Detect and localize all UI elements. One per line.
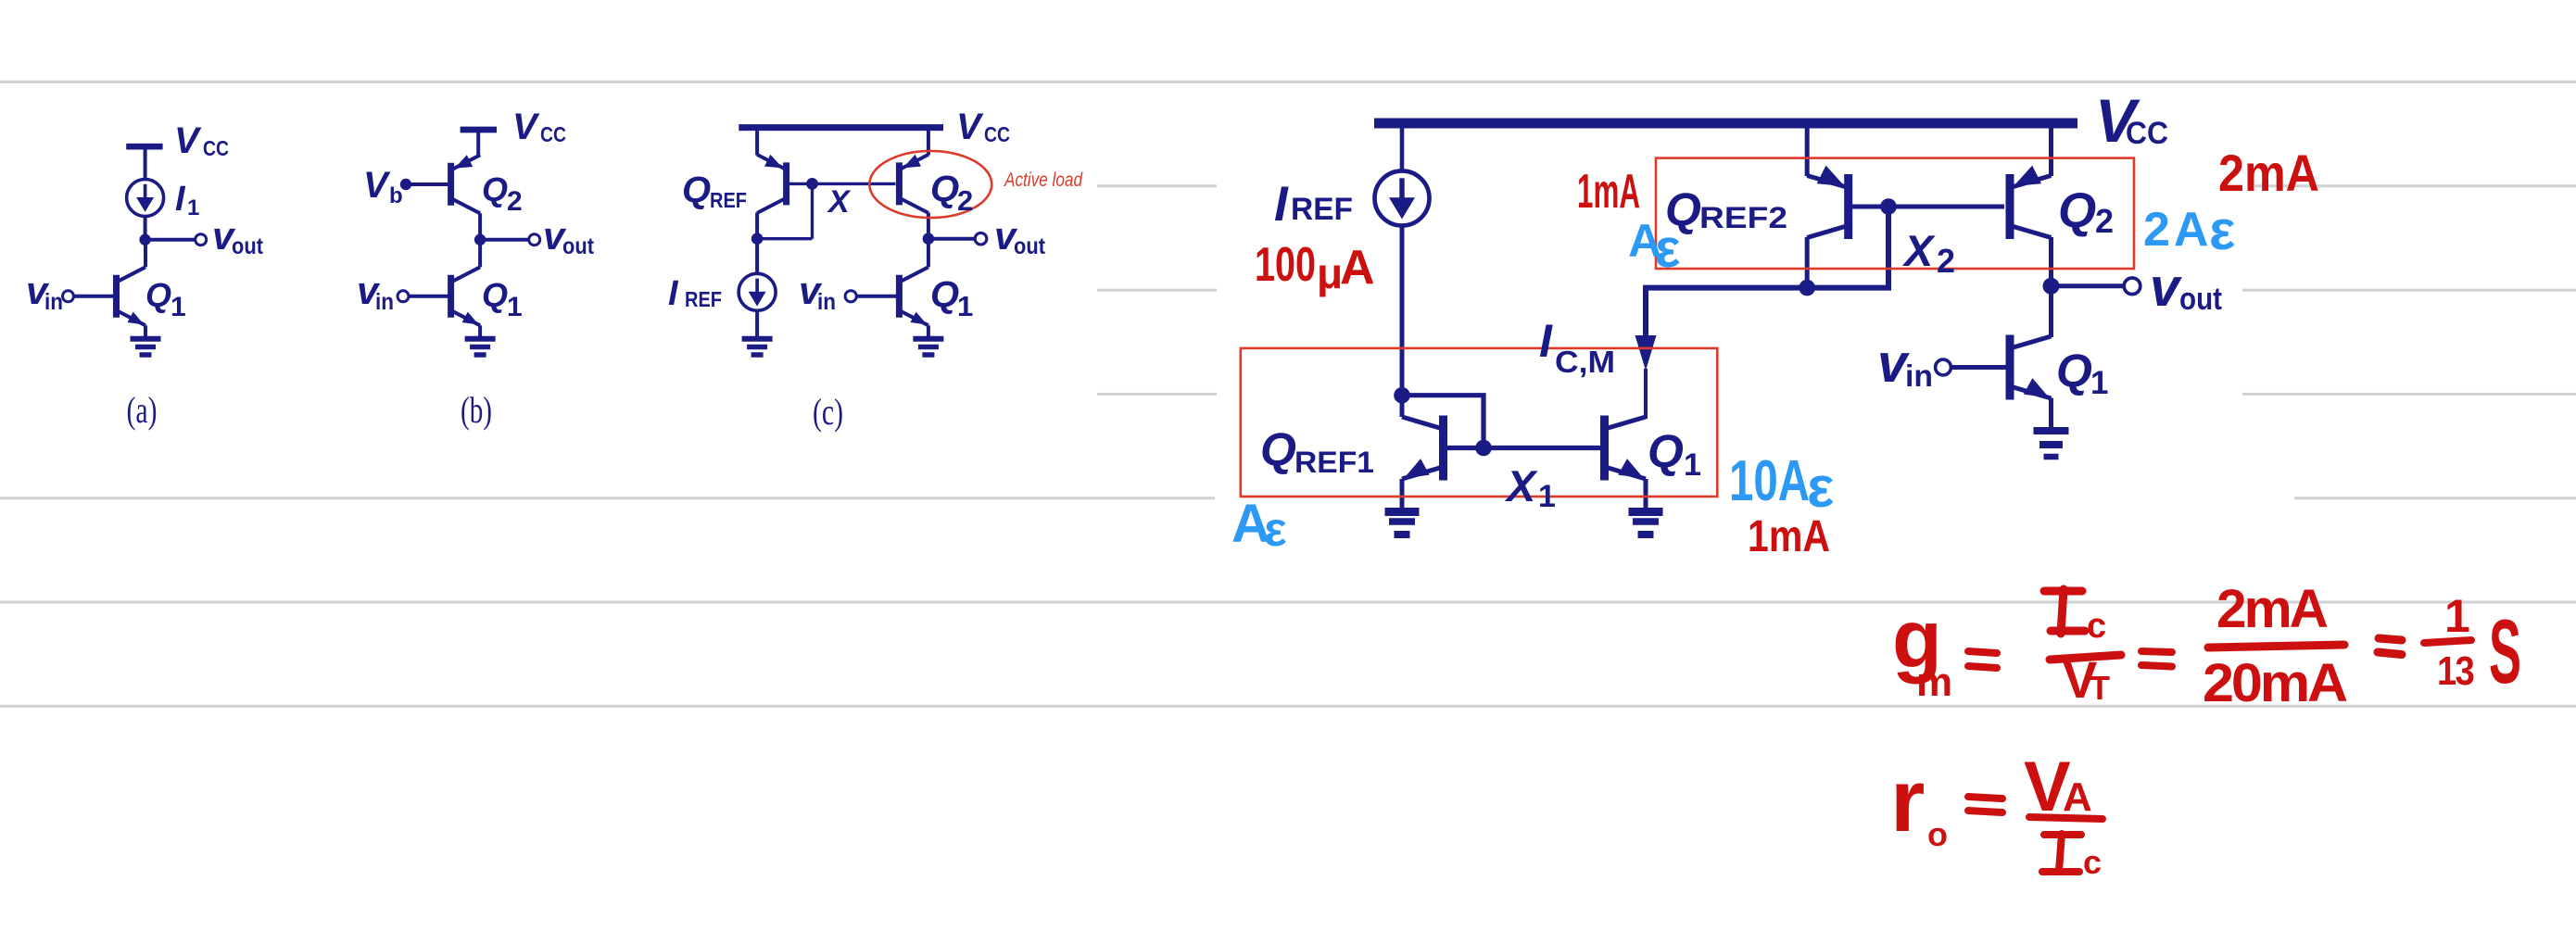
svg-text:2A: 2A	[2143, 203, 2212, 257]
svg-text:CC: CC	[203, 136, 229, 160]
svg-text:X: X	[1901, 226, 1936, 275]
svg-text:1: 1	[170, 292, 186, 322]
svg-text:Q: Q	[482, 276, 508, 314]
svg-text:REF: REF	[710, 188, 747, 212]
svg-text:2mA: 2mA	[2216, 579, 2328, 639]
svg-text:C,M: C,M	[1555, 345, 1615, 379]
svg-text:CC: CC	[540, 122, 566, 146]
svg-text:in: in	[1905, 359, 1933, 393]
svg-text:out: out	[1014, 233, 1046, 259]
svg-text:out: out	[562, 233, 595, 259]
svg-text:2: 2	[2095, 202, 2114, 240]
svg-text:S: S	[2489, 600, 2521, 702]
svg-text:V: V	[512, 107, 540, 147]
svg-text:in: in	[817, 289, 836, 315]
svg-text:Q: Q	[145, 276, 171, 314]
svg-text:10A: 10A	[1729, 449, 1810, 513]
svg-text:1: 1	[1684, 447, 1701, 483]
svg-text:2: 2	[957, 184, 973, 217]
svg-text:I: I	[175, 180, 186, 219]
svg-text:2: 2	[507, 186, 523, 217]
svg-text:ε: ε	[1655, 219, 1681, 279]
svg-text:CC: CC	[984, 122, 1010, 146]
svg-text:X: X	[1504, 461, 1538, 510]
svg-text:Q: Q	[482, 170, 508, 208]
svg-text:ε: ε	[1264, 503, 1287, 557]
svg-text:b: b	[389, 183, 403, 208]
svg-text:c: c	[2087, 607, 2106, 646]
svg-text:CC: CC	[2126, 116, 2168, 151]
svg-text:1: 1	[187, 195, 199, 220]
svg-text:Q: Q	[930, 169, 959, 209]
svg-text:Q: Q	[2058, 183, 2096, 238]
svg-text:out: out	[2179, 282, 2222, 317]
svg-text:Q: Q	[682, 170, 711, 210]
svg-text:A: A	[1340, 241, 1375, 295]
svg-text:V: V	[363, 165, 391, 206]
svg-text:(c): (c)	[813, 391, 843, 433]
svg-text:V: V	[174, 120, 202, 161]
svg-text:Active load: Active load	[1003, 170, 1083, 191]
svg-text:μ: μ	[1317, 249, 1343, 297]
svg-text:Q: Q	[930, 274, 959, 315]
svg-text:REF: REF	[685, 287, 722, 311]
svg-text:Q: Q	[2056, 345, 2092, 396]
svg-text:v: v	[2150, 258, 2182, 318]
svg-text:A: A	[2063, 774, 2092, 820]
svg-text:2: 2	[1937, 242, 1955, 280]
svg-text:(b): (b)	[461, 389, 492, 431]
svg-text:ε: ε	[1807, 456, 1834, 520]
svg-text:m: m	[1916, 660, 1952, 705]
svg-text:1mA: 1mA	[1577, 165, 1640, 219]
svg-text:V: V	[956, 107, 984, 147]
svg-text:in: in	[375, 289, 394, 315]
svg-text:20mA: 20mA	[2203, 653, 2347, 713]
svg-text:I: I	[668, 274, 679, 313]
svg-text:Q: Q	[1260, 423, 1296, 475]
svg-text:r: r	[1890, 751, 1925, 850]
svg-text:1: 1	[2444, 590, 2470, 642]
svg-text:100: 100	[1255, 238, 1316, 292]
svg-text:Q: Q	[1648, 425, 1684, 477]
svg-text:ε: ε	[2209, 199, 2235, 261]
svg-text:out: out	[232, 233, 264, 259]
svg-text:I: I	[1274, 177, 1289, 232]
svg-text:1: 1	[2090, 365, 2108, 401]
svg-text:REF1: REF1	[1294, 446, 1374, 479]
svg-text:13: 13	[2437, 648, 2473, 694]
svg-text:1: 1	[957, 290, 973, 322]
svg-text:REF2: REF2	[1699, 201, 1787, 234]
svg-text:REF: REF	[1291, 192, 1353, 227]
svg-text:T: T	[2090, 669, 2110, 707]
svg-text:c: c	[2083, 843, 2102, 881]
svg-text:I: I	[1539, 315, 1553, 367]
svg-text:1: 1	[507, 292, 523, 322]
svg-text:(a): (a)	[127, 389, 158, 431]
svg-text:in: in	[44, 289, 63, 315]
svg-text:o: o	[1927, 815, 1948, 853]
svg-text:1: 1	[1538, 479, 1556, 514]
svg-text:X: X	[827, 184, 852, 220]
svg-text:2mA: 2mA	[2218, 144, 2319, 202]
